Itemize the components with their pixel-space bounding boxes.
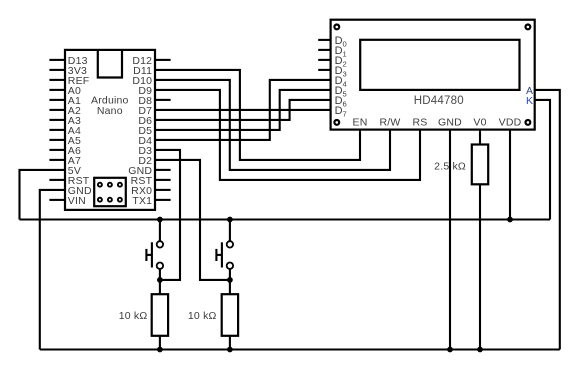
junction: R2 at ground rail xyxy=(227,347,233,353)
junction: S1/R1/D3 node xyxy=(157,277,163,283)
svg-text:GND: GND xyxy=(438,117,462,129)
wire button S1 to resistor R1 xyxy=(159,280,161,294)
wire LCD GND pin to ground rail xyxy=(449,130,451,350)
svg-text:TX1: TX1 xyxy=(132,195,152,207)
wire LCD VDD pin to 5V rail xyxy=(509,130,511,220)
LCD mounting holes xyxy=(334,25,530,125)
wire D5 to LCD D5 xyxy=(155,90,331,130)
wire D2 to button S2 output node xyxy=(155,160,230,280)
wire D7 to LCD D7 xyxy=(155,109,331,111)
junction: R3 at ground rail xyxy=(477,347,483,353)
Arduino U1 USB connector notch xyxy=(98,50,122,78)
svg-text:EN: EN xyxy=(353,117,368,129)
wire button S2 to resistor R2 xyxy=(229,280,231,294)
wire D10 to LCD R/W xyxy=(155,80,390,170)
wire A: ground rail riser to LCD A pin xyxy=(535,90,560,350)
LCD label HD44780 xyxy=(414,95,464,107)
junction: S1 at 5V rail xyxy=(157,217,163,223)
LCD HD44780 module body xyxy=(331,20,535,130)
Arduino Nano U1 body xyxy=(65,50,155,210)
wire resistor R1 to ground rail xyxy=(159,336,161,350)
wire D4 to LCD D4 xyxy=(155,80,331,140)
svg-text:10 kΩ: 10 kΩ xyxy=(119,310,148,322)
wire D3 to button S1 output node xyxy=(155,150,180,280)
Arduino U1 ICSP header xyxy=(94,178,126,206)
wire ground rail (horizontal bus) xyxy=(40,348,560,350)
LCD pin stubs D0-D3 (unconnected) xyxy=(318,40,330,70)
wire GND: Arduino GND pin to ground rail xyxy=(40,190,65,350)
wire 5V rail (horizontal bus) xyxy=(20,218,551,220)
wire resistor R2 to ground rail xyxy=(229,336,231,350)
Arduino U1 right pin stubs (D12,D8,GND,RST,RX0,TX1) xyxy=(155,60,171,200)
junction: VDD at 5V rail xyxy=(507,217,513,223)
LCD right pin labels A K xyxy=(526,85,533,107)
wire LCD V0 pin to resistor R3 xyxy=(479,130,481,145)
LCD pin labels D0-D7 xyxy=(335,35,347,119)
push button S1 xyxy=(146,220,163,280)
svg-text:V0: V0 xyxy=(473,117,486,129)
resistor R1 value label xyxy=(119,310,148,322)
resistor R2 value label xyxy=(188,310,217,322)
svg-text:2.5 kΩ: 2.5 kΩ xyxy=(434,160,466,172)
Arduino U1 right pin labels xyxy=(128,55,152,207)
LCD screen area xyxy=(360,40,519,90)
svg-text:VDD: VDD xyxy=(499,117,522,129)
wire K: 5V rail riser to LCD K pin xyxy=(535,100,550,220)
svg-text:RS: RS xyxy=(413,117,428,129)
Arduino U1 left pin labels xyxy=(68,55,92,207)
svg-text:Nano: Nano xyxy=(97,105,123,117)
svg-text:10 kΩ: 10 kΩ xyxy=(188,310,217,322)
Arduino U1 left pin stubs (D13,3V3,REF,A0-A7,RST,VIN) xyxy=(49,60,65,200)
junction: S2 at 5V rail xyxy=(227,217,233,223)
resistor R3 value label xyxy=(434,160,466,172)
wire D9 to LCD RS xyxy=(155,90,420,180)
junction: LCD GND at ground rail xyxy=(447,347,453,353)
resistor R2 10k body xyxy=(222,294,238,336)
resistor R1 10k body xyxy=(152,294,168,336)
svg-text:K: K xyxy=(526,95,533,107)
junction: S2/R2/D2 node xyxy=(227,277,233,283)
LCD bottom pin labels EN R/W RS GND V0 VDD xyxy=(353,117,522,129)
wire D11 to LCD EN xyxy=(155,70,360,160)
resistor R3 2.5k body xyxy=(472,145,488,185)
svg-text:R/W: R/W xyxy=(379,117,400,129)
Arduino U1 label xyxy=(91,94,129,116)
svg-text:VIN: VIN xyxy=(68,195,86,207)
junction: R1 at ground rail xyxy=(157,347,163,353)
push button S2 xyxy=(216,220,233,280)
wire resistor R3 to ground rail xyxy=(479,184,481,349)
wire 5V: Arduino 5V pin to 5V rail xyxy=(20,170,66,220)
wire D6 to LCD D6 xyxy=(155,100,331,120)
svg-text:HD44780: HD44780 xyxy=(414,95,464,107)
